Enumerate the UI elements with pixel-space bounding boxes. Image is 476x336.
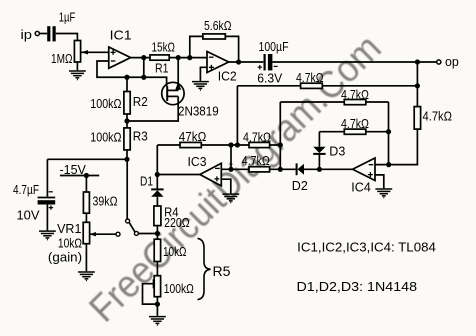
svg-text:R3: R3 bbox=[133, 128, 148, 143]
resistor R1 15k bbox=[150, 55, 169, 60]
svg-text:IC1,IC2,IC3,IC4: TL084: IC1,IC2,IC3,IC4: TL084 bbox=[297, 239, 436, 254]
wire 100k pot bottom bbox=[156, 297, 158, 316]
wire ip to C input bbox=[39, 33, 47, 35]
wire 39k to VR1 bbox=[85, 213, 87, 222]
wire junction down to feedback rail bbox=[143, 58, 145, 78]
potentiometer VR1 10k bbox=[83, 222, 89, 243]
svg-text:D1: D1 bbox=[140, 174, 153, 189]
resistor 5.6k bbox=[203, 34, 225, 39]
4.7uF minus sign bbox=[49, 191, 53, 193]
wire IC3 plus input to ground bbox=[221, 179, 231, 193]
node op terminal bbox=[437, 60, 441, 64]
100k pot wiper tick bbox=[153, 279, 155, 288]
node junction bus / row5 bbox=[278, 167, 283, 172]
IC2 minus mark bbox=[209, 56, 214, 58]
svg-text:IC4: IC4 bbox=[351, 179, 371, 194]
svg-text:D3: D3 bbox=[329, 144, 345, 159]
node junction 100k bottom / wiper bbox=[155, 302, 160, 307]
potentiometer R5b 100k bbox=[154, 276, 160, 297]
wire R4 bottom to node bbox=[156, 226, 158, 234]
resistor 4.7k right column bbox=[414, 107, 420, 130]
wire D3 cathode lead bbox=[318, 154, 320, 169]
svg-text:100µF: 100µF bbox=[259, 39, 289, 54]
svg-text:1µF: 1µF bbox=[59, 9, 76, 24]
100uF plus sign bbox=[258, 65, 262, 69]
1M wiper arrowhead bbox=[81, 50, 88, 54]
node junction R4 / switch / R5 bbox=[155, 231, 160, 236]
wire link row4 to row5 bbox=[230, 145, 232, 169]
wire IC1 output to R1 bbox=[131, 57, 150, 59]
node junction IC3 out / 47k / D1 bbox=[155, 172, 160, 177]
ground IC3 plus input bbox=[222, 194, 239, 203]
resistor 4.7k row2 bbox=[344, 100, 366, 105]
resistor R4 220 bbox=[154, 206, 161, 226]
resistor 4.7k row3 bbox=[344, 129, 366, 134]
IC4 plus mark bbox=[368, 172, 373, 177]
resistor R5a 10k bbox=[154, 239, 160, 261]
node ip terminal bbox=[35, 31, 39, 35]
svg-text:D1,D2,D3: 1N4148: D1,D2,D3: 1N4148 bbox=[297, 279, 418, 294]
wire 100uF to op terminal bbox=[272, 61, 436, 63]
wire R2 bottom to source rail bbox=[126, 114, 128, 121]
node junction op rail / right column bbox=[415, 59, 420, 64]
node junction feedback rail bbox=[141, 75, 146, 80]
ground IC2 plus input bbox=[192, 82, 209, 91]
node junction row1 / right column bbox=[415, 83, 420, 88]
svg-text:VR1: VR1 bbox=[57, 221, 81, 236]
svg-text:10V: 10V bbox=[17, 208, 40, 223]
ground below VR1 bbox=[78, 272, 95, 281]
wire IC2 output bbox=[229, 61, 264, 63]
wire D3 anode lead bbox=[318, 132, 320, 147]
op-amp IC1 bbox=[109, 47, 131, 68]
node junction row4 / link down bbox=[228, 142, 233, 147]
node junction R2 top bbox=[124, 75, 129, 80]
wire bus row1 down to row4 bbox=[236, 86, 238, 145]
transistor Q1 2N3819 body bbox=[162, 82, 184, 104]
svg-text:100kΩ: 100kΩ bbox=[90, 96, 121, 111]
svg-text:10kΩ: 10kΩ bbox=[163, 244, 187, 259]
wire ladder row1 (IC2 bus to right column) bbox=[237, 85, 417, 87]
wire -15V stub bbox=[60, 175, 99, 177]
svg-text:15kΩ: 15kΩ bbox=[152, 39, 176, 54]
VR1 wiper arrowhead bbox=[89, 232, 96, 236]
ground below R5 bbox=[149, 317, 166, 326]
resistor 4.7k row5 bbox=[249, 167, 270, 172]
svg-text:4.7kΩ: 4.7kΩ bbox=[423, 109, 453, 124]
svg-text:(gain): (gain) bbox=[48, 249, 82, 264]
capacitor 4.7uF minus plate bbox=[38, 197, 56, 199]
capacitor 4.7uF plus plate bbox=[38, 200, 56, 204]
resistor R2 100k lead top bbox=[126, 77, 128, 91]
wire 1M wiper to IC1 + input bbox=[82, 51, 109, 53]
brace R5 bbox=[198, 238, 211, 299]
node junction drain bbox=[176, 55, 181, 60]
svg-text:-15V: -15V bbox=[60, 162, 87, 177]
svg-text:4.7kΩ: 4.7kΩ bbox=[341, 116, 369, 131]
svg-text:IC3: IC3 bbox=[188, 154, 207, 169]
node junction D3 / D2 / IC4 out bbox=[317, 167, 322, 172]
node switch right contact bbox=[134, 231, 138, 235]
svg-text:R5: R5 bbox=[213, 263, 231, 279]
svg-text:2N3819: 2N3819 bbox=[178, 103, 219, 118]
svg-text:4.7kΩ: 4.7kΩ bbox=[341, 87, 369, 102]
resistor R3 100k bbox=[124, 128, 130, 150]
svg-text:IC1: IC1 bbox=[110, 27, 132, 42]
op-amp IC4 bbox=[353, 158, 375, 181]
Q1 source inner bar bbox=[167, 95, 178, 97]
wire IC2 plus input to ground bbox=[200, 67, 207, 81]
wire IC1 feedback (minus input loop) bbox=[97, 61, 167, 87]
wire right column bottom to IC4 minus bbox=[375, 129, 417, 165]
wire IC4 plus input to ground bbox=[375, 175, 384, 188]
op-amp IC2 bbox=[207, 52, 229, 73]
wire ladder row4 (47k + 4.7k) bbox=[157, 144, 280, 146]
svg-text:100kΩ: 100kΩ bbox=[90, 130, 121, 145]
ground IC4 plus input bbox=[375, 189, 392, 198]
4.7uF plus sign bbox=[49, 205, 53, 209]
svg-text:39kΩ: 39kΩ bbox=[93, 194, 118, 209]
wire IC3 output bbox=[157, 174, 200, 176]
wire ladder row3 bbox=[319, 131, 388, 133]
capacitor 4.7uF top lead bbox=[46, 159, 48, 196]
wire 1M pot bottom to ground bbox=[76, 62, 78, 70]
wire right column top bbox=[416, 62, 418, 107]
wire D1 anode to R4 bbox=[156, 197, 158, 206]
wire -15V to 39k bbox=[85, 176, 87, 193]
svg-text:ip: ip bbox=[21, 27, 33, 42]
node junction output/feedback bbox=[141, 55, 146, 60]
Q1 gate bar bbox=[166, 86, 168, 101]
wire JFET source rail bbox=[127, 96, 178, 121]
Q1 drain inner bar bbox=[167, 89, 178, 91]
wire 100k wiper loop to bottom bbox=[143, 284, 158, 304]
node switch top contact bbox=[126, 219, 130, 223]
100uF minus sign bbox=[274, 65, 278, 67]
wire ladder row5 (IC3 minus to D2) bbox=[221, 168, 352, 170]
op-amp IC3 bbox=[200, 163, 221, 186]
potentiometer 1M bbox=[74, 41, 80, 63]
svg-text:5.6kΩ: 5.6kΩ bbox=[204, 18, 232, 33]
node junction R2 bottom / source bbox=[124, 118, 129, 123]
diode D3 cathode bar bbox=[313, 153, 325, 155]
diode D3 triangle bbox=[313, 147, 325, 153]
svg-text:220Ω: 220Ω bbox=[164, 215, 190, 230]
node junction R3 bottom bbox=[124, 157, 129, 162]
diode D1 cathode bar bbox=[151, 188, 163, 190]
svg-text:4.7kΩ: 4.7kΩ bbox=[243, 130, 271, 145]
node junction bus / row4 bbox=[235, 142, 240, 147]
transistor Q1 2N3819 drain wire bbox=[177, 58, 179, 91]
IC4 minus mark bbox=[369, 164, 374, 166]
svg-text:1MΩ: 1MΩ bbox=[51, 51, 73, 66]
wire switch common to R4 node bbox=[139, 233, 158, 235]
wire VR1 bottom to ground bbox=[85, 244, 87, 272]
svg-text:R2: R2 bbox=[133, 94, 148, 109]
svg-text:4.7kΩ: 4.7kΩ bbox=[242, 153, 270, 168]
svg-text:IC2: IC2 bbox=[218, 69, 237, 84]
diode D2 cathode bar bbox=[296, 163, 298, 175]
node junction IC4 minus input bbox=[386, 162, 391, 167]
resistor 39k bbox=[83, 192, 89, 213]
capacitor 100uF plus plate bbox=[264, 54, 266, 70]
svg-text:100kΩ: 100kΩ bbox=[164, 281, 194, 296]
resistor 4.7k row4 bbox=[249, 142, 270, 147]
IC1 minus mark bbox=[111, 60, 116, 62]
svg-text:4.7µF: 4.7µF bbox=[13, 182, 39, 197]
node junction row3 / column bbox=[386, 129, 391, 134]
Q1 drain arrow bbox=[175, 82, 181, 90]
wire row2 column down to IC4 minus bbox=[388, 102, 390, 165]
wire D1 cathode lead bbox=[156, 175, 158, 190]
wire middle bus row2 to row5 bbox=[279, 102, 281, 169]
IC3 plus mark bbox=[214, 176, 219, 181]
wire 5.6k feedback loop bbox=[190, 36, 239, 62]
diode D1 triangle bbox=[151, 190, 163, 196]
wire R1 to IC2 minus input bbox=[169, 57, 207, 59]
resistor 47k bbox=[180, 142, 201, 147]
node junction 39k / -15V bbox=[84, 173, 89, 178]
switch blade bbox=[129, 223, 135, 233]
resistor 4.7k row1 bbox=[301, 83, 323, 88]
svg-text:10kΩ: 10kΩ bbox=[58, 236, 82, 251]
wire node to 10k bbox=[156, 234, 158, 240]
wire 47k left corner down bbox=[156, 145, 158, 175]
capacitor 1uF input bbox=[47, 26, 56, 41]
node junction row5 / link bbox=[228, 167, 233, 172]
svg-text:4.7kΩ: 4.7kΩ bbox=[296, 70, 324, 85]
node junction IC2 output / feedback bbox=[236, 59, 241, 64]
node junction 5.6k feedback bbox=[187, 55, 192, 60]
wire R3 node down to switch bbox=[126, 159, 128, 219]
wire 10k to 100k pot bbox=[156, 262, 158, 276]
wire R3 bottom to -15V rail bbox=[126, 150, 128, 159]
resistor R3 100k lead top bbox=[126, 121, 128, 128]
IC1 plus mark bbox=[111, 50, 116, 55]
diode D2 triangle bbox=[298, 164, 305, 175]
IC3 minus mark bbox=[215, 167, 220, 169]
svg-text:D2: D2 bbox=[292, 178, 308, 193]
wire C to 1M pot top bbox=[56, 34, 78, 41]
wire -15V rail (cap to R3 node) bbox=[47, 158, 127, 160]
ground below 4.7uF bbox=[39, 231, 56, 240]
svg-text:47kΩ: 47kΩ bbox=[179, 129, 207, 144]
node junction bus / row4 right bbox=[278, 142, 283, 147]
svg-text:6.3V: 6.3V bbox=[257, 71, 282, 86]
node switch left contact bbox=[116, 232, 120, 236]
resistor R2 100k bbox=[124, 92, 130, 115]
wire ladder row2 bbox=[280, 101, 388, 103]
svg-text:R1: R1 bbox=[155, 61, 169, 76]
capacitor 100uF minus plate bbox=[268, 54, 273, 70]
ground below 1M pot bbox=[69, 71, 86, 80]
wire 4.7uF bottom to ground bbox=[46, 204, 48, 230]
svg-text:op: op bbox=[445, 54, 459, 69]
wire VR1 wiper to switch bbox=[90, 233, 116, 235]
IC2 plus mark bbox=[209, 65, 214, 70]
